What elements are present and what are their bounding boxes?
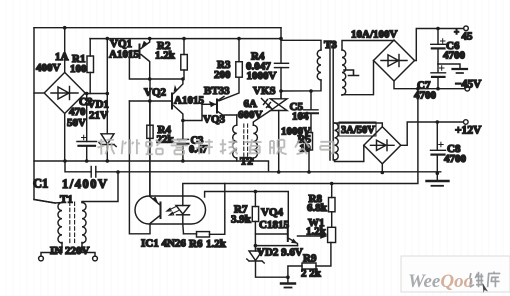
svg-text:200: 200: [214, 69, 231, 81]
zener diode VD2: [247, 246, 298, 278]
capacitor C2: [77, 94, 97, 162]
wire VQ1 base/collector node: [129, 51, 183, 79]
svg-text:45: 45: [462, 31, 474, 43]
wire L (opto to VQ4 collector): [205, 192, 289, 228]
svg-text:100: 100: [70, 63, 87, 75]
svg-text:T2: T2: [240, 156, 253, 168]
transistor VQ4: [255, 227, 297, 246]
capacitor C7: [431, 64, 446, 89]
svg-text:104: 104: [292, 111, 309, 123]
bridge rectifier 1A/400V: [34, 28, 107, 161]
svg-text:IN 220V: IN 220V: [50, 245, 89, 257]
svg-text:VQ2: VQ2: [144, 87, 167, 99]
svg-text:−45V: −45V: [455, 79, 482, 91]
svg-text:T3: T3: [324, 39, 337, 51]
svg-text:1/400V: 1/400V: [62, 177, 109, 191]
transformer T3 primary: [281, 40, 321, 50]
svg-text:VD2 9.6V: VD2 9.6V: [257, 247, 303, 259]
triac VKS: [262, 91, 288, 172]
optocoupler IC1 4N26: [129, 79, 205, 234]
svg-text:A1015: A1015: [174, 95, 204, 107]
wire top rail: [34, 27, 281, 29]
ground (12V section): [427, 173, 449, 186]
svg-text:R6: R6: [189, 238, 203, 250]
capacitor C3: [178, 121, 189, 162]
resistor R6: [184, 184, 225, 238]
wire VQ2 collector to BT33 emitter: [183, 104, 202, 120]
T3 secondary 10A winding: [342, 41, 394, 96]
capacitor C1: [91, 167, 96, 178]
potentiometer W1: [298, 227, 336, 242]
svg-text:6.8k: 6.8k: [307, 202, 328, 214]
resistor R1: [87, 39, 94, 94]
transistor VQ2: [129, 79, 183, 121]
svg-text:3.9k: 3.9k: [231, 214, 252, 226]
bridge rectifier 3A/50V: [364, 127, 401, 164]
resistor R8: [329, 184, 336, 228]
svg-text:3A/50V: 3A/50V: [341, 125, 375, 136]
T3 core: [330, 43, 333, 160]
svg-text:A1015: A1015: [109, 49, 139, 61]
T3 center tap: [344, 70, 359, 76]
transistor VQ3 BT33: [202, 97, 237, 117]
svg-text:BT33: BT33: [204, 85, 230, 97]
ground (C6/C7 midpoint): [438, 64, 467, 73]
svg-text:4700: 4700: [414, 90, 437, 102]
svg-text:C1: C1: [33, 177, 48, 191]
wire -45 rail: [394, 81, 465, 89]
resistor R9: [288, 243, 331, 278]
mains transformer T1: [34, 172, 118, 261]
wire second rail y38.6: [90, 38, 281, 40]
wire +45: [415, 29, 464, 61]
svg-text:IC1 4N26: IC1 4N26: [141, 238, 186, 250]
watermark company text: [98, 139, 334, 155]
svg-text:1.2k: 1.2k: [155, 50, 176, 62]
capacitor C8: [431, 122, 446, 173]
capacitor C5: [304, 91, 319, 133]
svg-text:+: +: [454, 27, 459, 37]
svg-text:10A/100V: 10A/100V: [351, 29, 398, 41]
capacitor 0.047/1000V: [275, 28, 289, 99]
svg-text:600V: 600V: [238, 109, 263, 121]
svg-text:T1: T1: [60, 194, 73, 206]
svg-text:21V: 21V: [89, 110, 108, 122]
zener diode VD1: [99, 39, 116, 161]
ground (VD2/R9): [281, 277, 295, 287]
svg-text:1000V: 1000V: [247, 70, 277, 82]
svg-text:WeeQoo: WeeQoo: [408, 271, 473, 292]
svg-text:2 2k: 2 2k: [301, 268, 322, 280]
watermark WeeQoo box: [401, 256, 510, 293]
resistor R3: [219, 39, 242, 101]
wire 3A bridge bottom: [381, 164, 383, 173]
label box 3A/50V: [339, 122, 376, 136]
pulse transformer T2: [233, 111, 271, 162]
transistor VQ1: [129, 39, 149, 79]
svg-text:4700: 4700: [444, 153, 467, 165]
resistor R5: [306, 133, 313, 173]
wire rail2 y172: [65, 161, 441, 172]
T3 secondary 3A winding: [335, 123, 383, 162]
svg-text:+12V: +12V: [455, 125, 482, 137]
svg-text:VQ3: VQ3: [203, 114, 226, 126]
bridge rectifier 10A/100V: [374, 40, 415, 81]
svg-text:1.2k: 1.2k: [306, 226, 327, 238]
svg-text:1.2k: 1.2k: [206, 238, 227, 250]
svg-text:400V: 400V: [36, 62, 61, 74]
wire left rail: [34, 28, 55, 203]
capacitor C6: [431, 29, 446, 65]
svg-text:50V: 50V: [67, 117, 86, 129]
wire rail1 y161: [34, 161, 269, 172]
svg-text:R9: R9: [303, 253, 317, 265]
wire +12V: [401, 122, 463, 145]
svg-text:C1815: C1815: [259, 219, 289, 231]
resistor R4 22k: [147, 101, 153, 196]
resistor R7: [252, 192, 258, 246]
resistor R2: [181, 39, 188, 79]
svg-text:VQ4: VQ4: [261, 207, 284, 219]
wire LED anode riser / wire U: [183, 89, 418, 196]
svg-text:VKS: VKS: [253, 85, 276, 97]
svg-text:4700: 4700: [443, 50, 466, 62]
